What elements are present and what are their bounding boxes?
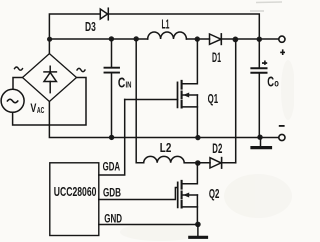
svg-text:o: o	[274, 78, 279, 89]
node B: CIN top junction	[109, 36, 114, 41]
wire: Q2 source down to node K	[196, 195, 198, 225]
inductor L1	[148, 32, 187, 39]
scan artifact smudge top right	[250, 2, 282, 11]
node F: Co top junction	[257, 37, 262, 42]
node D: L1/D1/Q1-drain junction	[195, 36, 200, 41]
transistor Q1 (MOSFET)	[178, 81, 198, 108]
svg-text:GDB: GDB	[103, 185, 121, 199]
svg-text:Q1: Q1	[208, 91, 219, 106]
wire: rectified bus rail y=39	[49, 38, 278, 40]
diode D1	[210, 34, 222, 45]
wire: GND from IC to node K	[99, 224, 198, 226]
wire: L2 to node J	[184, 162, 198, 164]
node K: Q2 source / GND junction	[195, 222, 201, 228]
IC U1 UCC28060 box	[50, 163, 99, 236]
svg-text:UCC28060: UCC28060	[54, 184, 97, 199]
AC source sine mark	[7, 99, 17, 102]
node A: bridge output tee junction	[47, 37, 52, 42]
wire: AC source bottom loop to bridge right vertex	[13, 78, 86, 126]
node H: Q1 source junction on ground rail	[195, 135, 200, 140]
bridge rectifier diamond	[23, 54, 77, 102]
wire: L2 feed from node C down	[136, 39, 144, 163]
svg-text:D1: D1	[212, 49, 221, 65]
bridge rectifier internal diode	[44, 66, 56, 92]
label: Co + polarity mark	[262, 61, 267, 65]
svg-text:IN: IN	[126, 80, 132, 90]
svg-text:Q2: Q2	[209, 186, 220, 201]
svg-text:C: C	[118, 74, 126, 91]
terminal: - output	[279, 134, 285, 140]
wire: GDB to Q2 gate	[99, 188, 178, 200]
AC mark right (~)	[77, 68, 85, 71]
node I: Co bottom / ground junction	[257, 135, 262, 140]
wire: D2 cathode riser to node E	[235, 39, 237, 162]
AC source VAC circle	[1, 89, 24, 112]
svg-text:L1: L1	[162, 16, 170, 31]
wire: Q1 drain riser from node D	[182, 39, 197, 84]
terminal: + output	[279, 36, 285, 42]
AC mark left (~)	[15, 67, 23, 70]
wire: bridge left vertex to AC source	[13, 78, 23, 90]
label: + output polarity mark	[280, 49, 285, 55]
svg-text:D2: D2	[212, 141, 222, 156]
svg-text:C: C	[267, 73, 274, 90]
label: - output polarity mark	[279, 125, 285, 127]
node C: L2 feed junction	[134, 36, 139, 41]
capacitor Co (output electrolytic)	[251, 39, 266, 138]
label CIN	[118, 74, 132, 91]
wire: Q2 drain riser from node J	[182, 163, 197, 184]
node J: L2/D2/Q2-drain junction	[195, 160, 201, 166]
svg-text:AC: AC	[37, 106, 45, 115]
diode D2	[198, 158, 236, 169]
capacitor CIN	[105, 39, 120, 138]
svg-text:L2: L2	[160, 141, 172, 155]
transistor Q2 (MOSFET)	[178, 181, 198, 208]
svg-text:GND: GND	[104, 212, 122, 226]
wire: top rail (D3 branch) from bridge+ to output node	[49, 14, 259, 54]
wire: Q1 source to ground rail node H	[196, 95, 198, 138]
ground symbol at output rail	[252, 138, 271, 148]
label VAC	[30, 103, 44, 115]
ground symbol at Q2 source	[190, 225, 207, 238]
svg-text:GDA: GDA	[103, 160, 121, 174]
node E: D1/D2 cathode output junction	[233, 37, 239, 43]
svg-text:D3: D3	[85, 19, 96, 34]
wire: bridge bottom to ground rail, ground rail y=137.5	[49, 102, 278, 138]
wire: GDA riser	[99, 100, 125, 176]
label Co	[267, 73, 279, 90]
wire: Q1 gate lead from GDA riser	[125, 99, 178, 101]
diode D3	[100, 8, 108, 20]
svg-text:V: V	[30, 103, 36, 115]
scan artifact blotches	[120, 60, 295, 241]
node G: CIN bottom junction	[109, 135, 114, 140]
inductor L2	[144, 156, 185, 162]
